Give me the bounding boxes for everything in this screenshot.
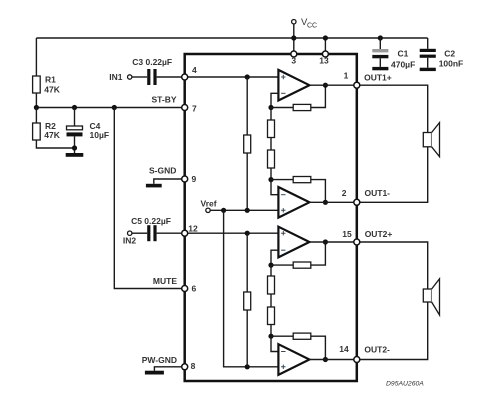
wire Vref line bbox=[210, 209, 278, 211]
svg-text:7: 7 bbox=[192, 103, 197, 113]
ground PW-GND bbox=[145, 371, 164, 375]
speaker LS2 bbox=[423, 279, 439, 315]
node bias bus top bbox=[245, 74, 250, 79]
node op4 plus junction bbox=[245, 364, 250, 369]
svg-text:8: 8 bbox=[191, 361, 196, 371]
wire bias bus lower tail bbox=[246, 310, 248, 367]
svg-text:12: 12 bbox=[188, 223, 198, 233]
pin 3 bbox=[291, 51, 297, 66]
wire C2 drop bbox=[427, 38, 429, 49]
resistor chain1 a bbox=[268, 120, 275, 138]
wire op3 minus L bbox=[271, 250, 278, 265]
op-amp A3 bbox=[278, 227, 309, 258]
wire op1 minus L bbox=[271, 93, 278, 107]
node Vref-bus2 bbox=[245, 208, 250, 213]
wire C3 to pin4 bbox=[157, 76, 185, 78]
Vcc terminal bbox=[292, 17, 318, 53]
node out2 fb bbox=[323, 200, 328, 205]
wire out1 bbox=[309, 84, 356, 86]
wire pin4 input line bbox=[185, 76, 279, 78]
IN1 terminal bbox=[109, 72, 132, 82]
pin 1 bbox=[344, 71, 360, 89]
wire IN2 to C5 bbox=[132, 232, 147, 234]
wire OUT1 loop speaker1 bbox=[357, 85, 428, 202]
svg-text:C5 0.22µF: C5 0.22µF bbox=[131, 216, 171, 226]
node rail-pin13 bbox=[323, 35, 328, 40]
svg-text:100nF: 100nF bbox=[439, 59, 464, 69]
wire C1 stem bbox=[379, 38, 381, 49]
svg-text:13: 13 bbox=[319, 56, 329, 66]
resistor fb2 bbox=[293, 177, 311, 183]
svg-text:47K: 47K bbox=[44, 85, 60, 95]
svg-text:47K: 47K bbox=[44, 130, 60, 140]
ground C1 bbox=[372, 67, 388, 70]
svg-text:470µF: 470µF bbox=[391, 59, 415, 69]
wire ST-BY line bbox=[36, 107, 184, 109]
svg-text:14: 14 bbox=[339, 344, 349, 354]
svg-text:1: 1 bbox=[344, 71, 349, 81]
wire pin12 input line bbox=[185, 232, 279, 234]
node R2-C4 ground bbox=[72, 145, 77, 150]
wire fb1 left bbox=[271, 107, 293, 109]
pin 15 bbox=[342, 229, 360, 245]
pin 13 bbox=[319, 51, 329, 66]
svg-text:MUTE: MUTE bbox=[153, 276, 177, 286]
node MUTE branch bbox=[112, 105, 117, 110]
svg-text:C3 0.22µF: C3 0.22µF bbox=[132, 57, 172, 67]
capacitor C2 bbox=[420, 48, 464, 68]
wire fb2 left bbox=[271, 179, 293, 181]
wire PW-GND bbox=[154, 367, 184, 371]
resistor chain2 b bbox=[268, 307, 275, 325]
wire fb4 right down bbox=[311, 336, 326, 359]
svg-text:Vref: Vref bbox=[201, 199, 217, 209]
pin 7 bbox=[182, 103, 197, 113]
wire out4 bbox=[309, 359, 356, 361]
IC box U1 bbox=[185, 54, 357, 381]
Vref terminal bbox=[201, 199, 217, 213]
svg-text:PW-GND: PW-GND bbox=[142, 355, 177, 365]
node Vref-bus1 bbox=[221, 208, 226, 213]
node out4 fb bbox=[323, 357, 328, 362]
svg-text:IN2: IN2 bbox=[123, 236, 137, 246]
node fb3 bbox=[268, 263, 273, 268]
wire Vref bus1 down bbox=[224, 210, 279, 366]
capacitor C1 bbox=[372, 48, 415, 69]
svg-text:4: 4 bbox=[192, 65, 197, 75]
wire S-GND bbox=[154, 179, 185, 184]
wire op4 minus L bbox=[271, 336, 278, 351]
svg-text:IN1: IN1 bbox=[109, 72, 123, 82]
wire chain2 top bbox=[270, 265, 272, 276]
wire MUTE net bbox=[114, 108, 184, 289]
ground C4 bbox=[66, 153, 84, 157]
speaker LS1 bbox=[423, 123, 439, 157]
svg-text:OUT1-: OUT1- bbox=[365, 188, 391, 198]
svg-text:3: 3 bbox=[291, 56, 296, 66]
svg-text:15: 15 bbox=[342, 229, 352, 239]
resistor chain1 b bbox=[268, 150, 275, 168]
svg-text:C1: C1 bbox=[398, 48, 409, 58]
svg-text:9: 9 bbox=[192, 174, 197, 184]
resistor chain2 a bbox=[268, 276, 275, 294]
resistor R2 bbox=[33, 108, 61, 141]
svg-text:ST-BY: ST-BY bbox=[151, 95, 176, 105]
wire Vcc top rail bbox=[36, 37, 427, 39]
wire bias bus upper lower half bbox=[246, 153, 248, 210]
svg-text:OUT2-: OUT2- bbox=[364, 344, 390, 354]
wire out2 bbox=[309, 201, 356, 203]
node rail-pin3 bbox=[291, 35, 296, 40]
wire pin13 stub bbox=[324, 38, 326, 53]
wire chain1 bottom bbox=[270, 168, 272, 180]
wire chain2 bottom bbox=[270, 325, 272, 337]
wire chain2 mid bbox=[270, 294, 272, 307]
wire left drop to R1 bbox=[35, 38, 37, 76]
wire R2 bottom to ground stem bbox=[36, 140, 74, 148]
capacitor C5 bbox=[131, 216, 171, 241]
wire fb3 right up bbox=[311, 242, 326, 265]
resistor bias lower bbox=[244, 292, 251, 310]
capacitor C4 bbox=[67, 108, 110, 154]
svg-text:S-GND: S-GND bbox=[149, 165, 176, 175]
wire OUT2 loop speaker2 bbox=[357, 242, 428, 360]
svg-text:2: 2 bbox=[342, 188, 347, 198]
svg-text:CC: CC bbox=[307, 22, 317, 29]
pin 4 bbox=[182, 65, 197, 80]
svg-text:R1: R1 bbox=[45, 75, 56, 85]
op-amp A2 bbox=[278, 187, 309, 218]
resistor fb1 bbox=[293, 104, 311, 110]
node C4 branch bbox=[72, 105, 77, 110]
op-amp A4 bbox=[278, 344, 309, 375]
svg-text:OUT1+: OUT1+ bbox=[364, 73, 392, 83]
wire chain1 mid bbox=[270, 138, 272, 151]
node pin12-bus2 bbox=[245, 231, 250, 236]
wire chain1 top bbox=[270, 108, 272, 121]
node fb4 bbox=[268, 334, 273, 339]
pin 8 bbox=[182, 361, 196, 371]
pin 12 bbox=[182, 223, 198, 236]
wire fb1 right up bbox=[311, 85, 326, 107]
wire op2 minus L bbox=[271, 180, 278, 195]
resistor bias upper bbox=[244, 135, 251, 153]
wire IN1 to C3 bbox=[132, 76, 147, 78]
wire fb4 left bbox=[271, 335, 293, 337]
svg-text:D95AU260A: D95AU260A bbox=[386, 381, 424, 388]
resistor fb4 bbox=[293, 333, 311, 339]
pin 6 bbox=[182, 283, 197, 293]
node R1-R2 bbox=[34, 105, 39, 110]
op-amp A1 bbox=[278, 70, 309, 101]
svg-text:C2: C2 bbox=[444, 48, 455, 58]
svg-text:10µF: 10µF bbox=[90, 130, 110, 140]
pin 9 bbox=[182, 174, 197, 184]
wire fb2 right down bbox=[311, 180, 326, 203]
node fb2 bbox=[268, 177, 273, 182]
capacitor C3 bbox=[132, 57, 172, 85]
node rail-C1 bbox=[378, 35, 383, 40]
pin 14 bbox=[339, 344, 360, 363]
resistor R1 bbox=[33, 75, 61, 95]
ground S-GND bbox=[146, 184, 162, 188]
node fb1 bbox=[268, 105, 273, 110]
node out3 fb bbox=[323, 239, 328, 244]
svg-text:6: 6 bbox=[192, 283, 197, 293]
wire fb3 left bbox=[271, 264, 293, 266]
svg-text:OUT2+: OUT2+ bbox=[365, 229, 393, 239]
resistor fb3 bbox=[293, 262, 311, 268]
pin 2 bbox=[342, 188, 360, 206]
wire bias bus upper bbox=[246, 77, 248, 135]
wire C5 to pin12 bbox=[157, 232, 185, 234]
wire bias bus lower bbox=[246, 233, 248, 292]
IN2 terminal bbox=[123, 231, 137, 246]
ground C2 bbox=[420, 68, 436, 71]
wire out3 bbox=[309, 241, 356, 243]
wire R1 to ST-BY node bbox=[35, 93, 37, 108]
node out1 fb bbox=[323, 83, 328, 88]
